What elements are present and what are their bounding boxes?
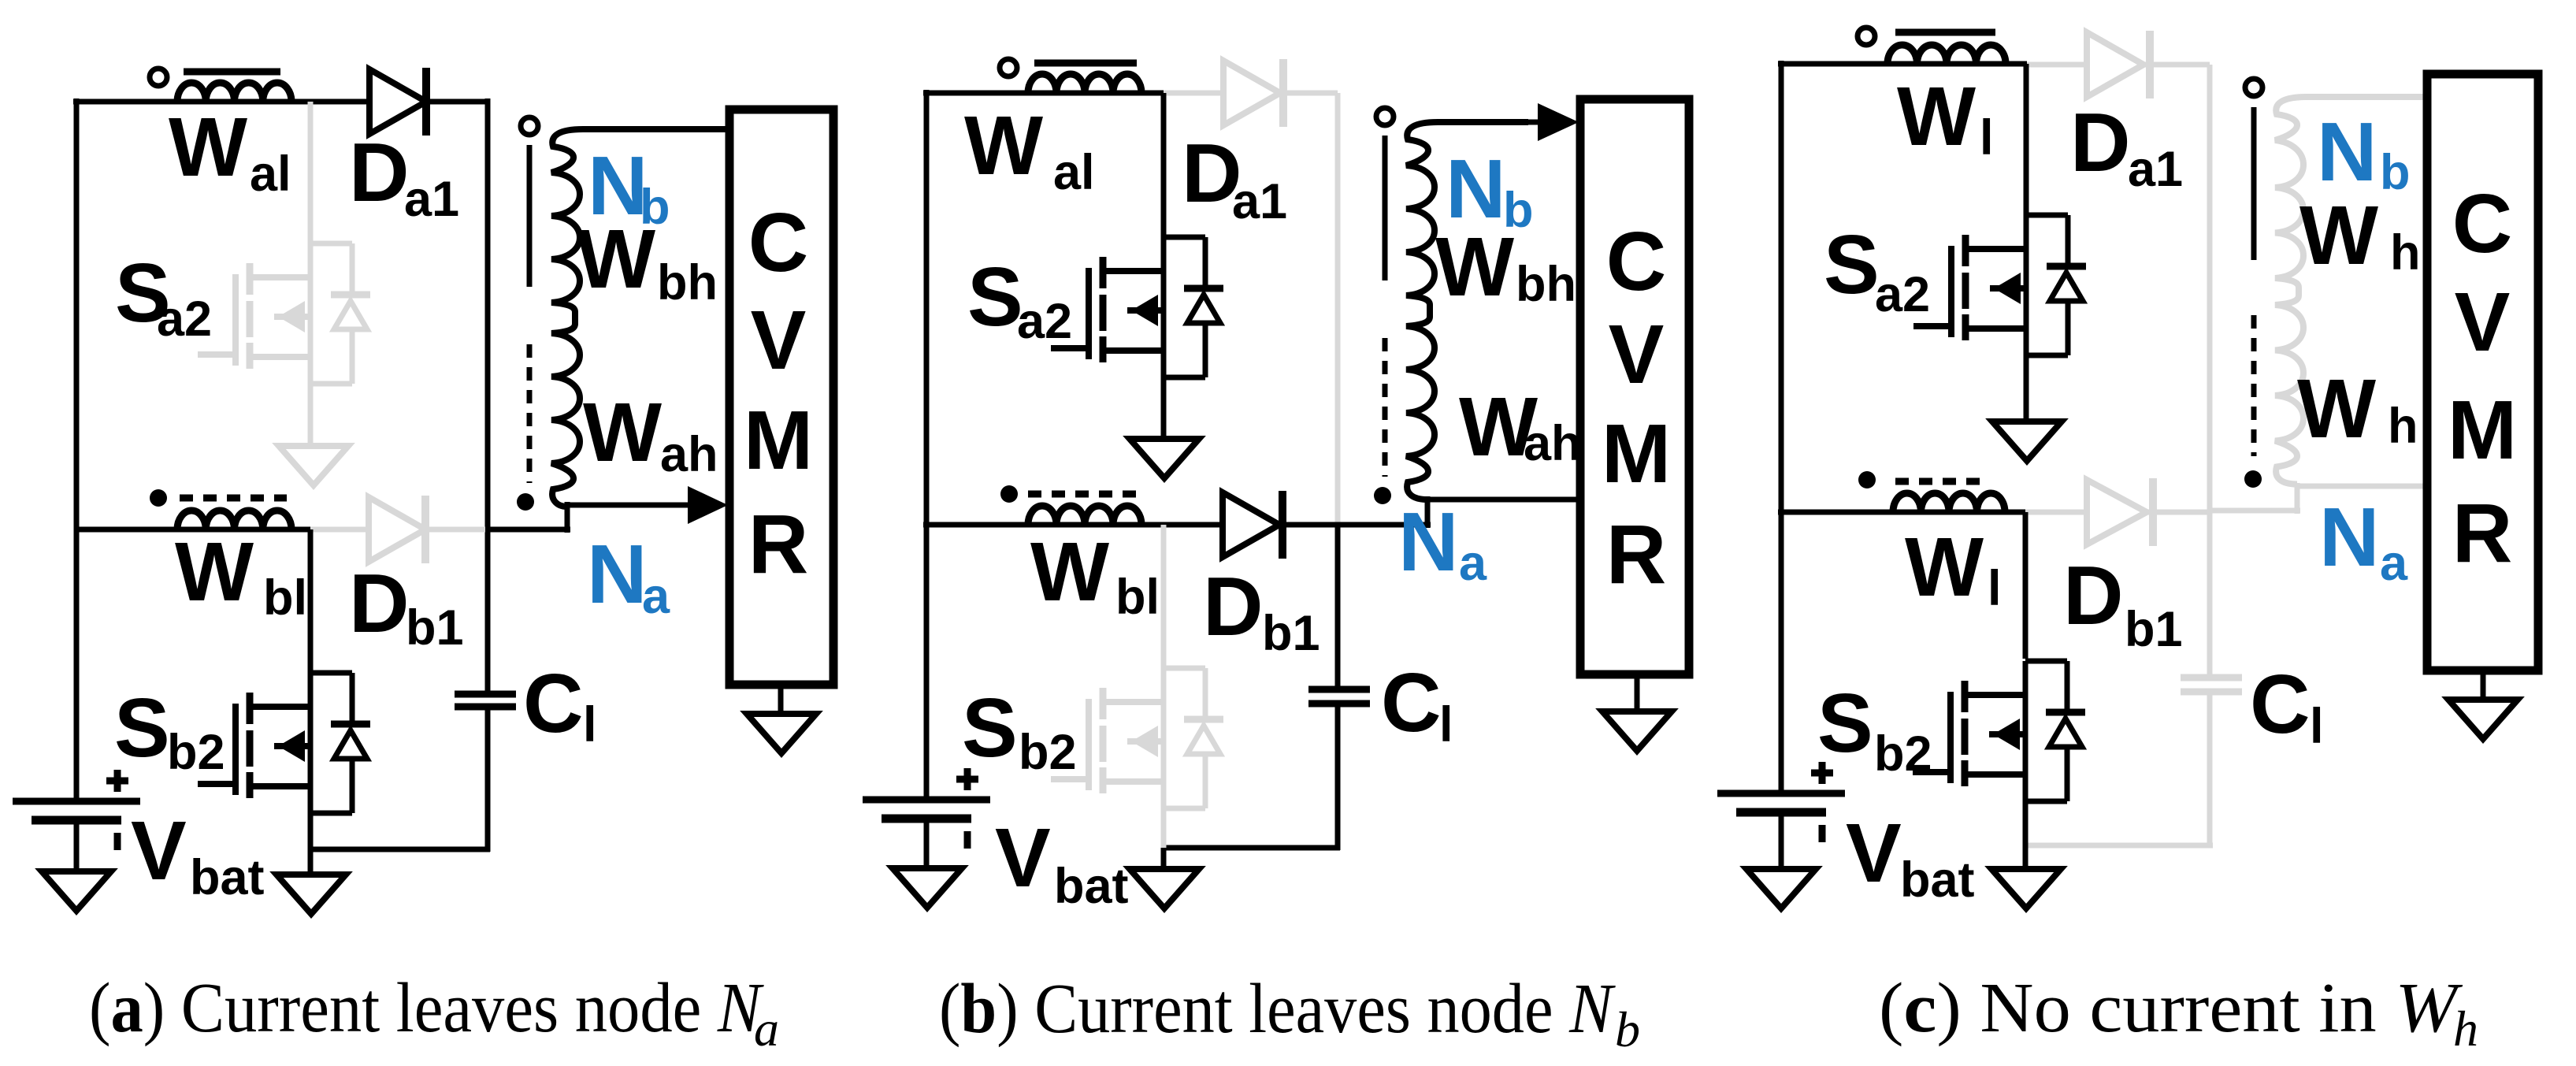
node Na jog wire (inactive) (c)	[2210, 483, 2427, 514]
svg-text:bl: bl	[1115, 570, 1160, 625]
svg-text:l: l	[2310, 699, 2324, 754]
svg-text:bh: bh	[1516, 257, 1576, 312]
inductor Wal winding	[177, 83, 291, 102]
transistor Sa2 source wire to ground	[308, 357, 314, 446]
svg-text:(c) No current in W: (c) No current in W	[1879, 969, 2463, 1047]
inductor Wl top winding (c)	[1887, 45, 2006, 64]
transformer core dashed line (b)	[1383, 338, 1388, 477]
caption (c)	[1879, 969, 2478, 1057]
wire: bottom rail, circuit (c)	[1778, 510, 2025, 515]
svg-text:V: V	[995, 812, 1051, 904]
inductor Wal winding (b)	[1028, 74, 1141, 93]
label Sa2 (c)	[1824, 218, 1930, 322]
ground below battery Vbat (b)	[893, 868, 962, 908]
battery Vbat	[13, 770, 140, 850]
transistor Sb2 (inactive) drain wire from bottom rail (b)	[1161, 525, 1167, 668]
ground below Sa2 (b)	[1130, 439, 1199, 478]
svg-text:W: W	[577, 213, 655, 306]
wire: battery negative stem (c)	[1779, 812, 1784, 869]
inductor Wl bottom dashed overline (c)	[1895, 478, 1985, 485]
svg-text:R: R	[1606, 508, 1667, 601]
svg-text:R: R	[2452, 487, 2513, 580]
inductor Wal overline bar	[184, 69, 280, 76]
wire: bottom rail gray segment through Db1, circuit (c)	[2025, 510, 2210, 515]
transistor Sb2 (inactive) (b)	[1051, 668, 1223, 808]
wire: bottom rail gray segment to Db1, circuit (a)	[310, 527, 488, 533]
ground below Sb2 (c)	[1991, 869, 2061, 908]
svg-text:al: al	[1053, 145, 1095, 200]
wire: battery negative stem, circuit (a)	[74, 820, 80, 871]
svg-text:W: W	[1905, 521, 1984, 614]
transistor Sa2 (b)	[1051, 237, 1223, 377]
label Vbat	[131, 804, 265, 905]
diode Db1 (b)	[1223, 491, 1282, 559]
battery Vbat (b)	[863, 768, 990, 849]
svg-text:D: D	[349, 126, 410, 219]
svg-text:S: S	[962, 682, 1018, 774]
node Na jog wire, circuit (a)	[485, 502, 570, 533]
label Wbh (b)	[1435, 221, 1576, 314]
ground below battery Vbat (c)	[1746, 869, 1816, 908]
svg-text:a: a	[754, 1001, 779, 1057]
ground below Sa2 (c)	[1992, 422, 2062, 461]
wire: bottom rail black segment through Wbl, circuit (a)	[76, 527, 314, 533]
svg-text:bl: bl	[263, 570, 307, 626]
transformer windings Wbh and Wah	[551, 129, 733, 507]
svg-text:C: C	[2250, 658, 2311, 751]
node Nb current arrow into CVMR (b)	[1520, 103, 1579, 141]
inductor Wl top terminal circle (c)	[1858, 28, 1875, 45]
wire: top rail, circuit (a)	[73, 99, 488, 105]
svg-text:bat: bat	[190, 850, 265, 905]
wire: gray vertical from Da1 through capacitor to bottom, circuit (c)	[2207, 65, 2213, 845]
svg-text:V: V	[1846, 807, 1902, 900]
wire: bottom rail, circuit (b)	[923, 522, 1338, 528]
label Sb2	[114, 682, 225, 780]
label Wl bottom (c)	[1905, 521, 2002, 616]
label Wbh	[577, 213, 718, 310]
svg-text:C: C	[523, 657, 584, 750]
svg-text:N: N	[587, 528, 648, 621]
label Db1	[349, 557, 464, 656]
inductor Wl bottom winding (c)	[1893, 493, 2005, 512]
svg-text:b: b	[2380, 145, 2410, 200]
transistor Sb2 drain wire from bottom rail	[308, 529, 314, 673]
wire: bottom output wire, circuit (b)	[1164, 845, 1340, 851]
transistor Sa2 source wire to ground (c)	[2024, 329, 2029, 422]
svg-text:bat: bat	[1054, 859, 1129, 914]
svg-text:W: W	[2297, 362, 2376, 455]
transformer windings Wh (inactive) (c)	[2275, 97, 2427, 485]
svg-text:h: h	[2390, 225, 2420, 280]
CVMR block (c)	[2427, 74, 2538, 670]
svg-text:a1: a1	[1232, 174, 1287, 229]
label Cl (b)	[1381, 656, 1453, 752]
svg-text:W: W	[2299, 189, 2378, 282]
diode Da1	[369, 68, 426, 136]
svg-text:h: h	[2388, 399, 2418, 454]
battery Vbat (c)	[1717, 762, 1845, 842]
transformer core solid line, circuit (a)	[527, 145, 533, 287]
transformer Wbh terminal circle	[521, 117, 538, 135]
transformer Wah polarity dot	[517, 493, 534, 511]
svg-text:C: C	[2452, 177, 2513, 270]
ground below CVMR, circuit (a)	[747, 714, 816, 753]
svg-text:S: S	[114, 682, 170, 774]
capacitor Cl	[455, 694, 516, 707]
wire: left vertical rail, circuit (a)	[74, 98, 80, 801]
svg-text:bh: bh	[657, 255, 718, 310]
transformer core solid line (b)	[1383, 136, 1388, 280]
transformer windings Wbh and Wah (b)	[1406, 122, 1528, 500]
label Wah	[583, 386, 718, 482]
label Wl top (c)	[1897, 70, 1994, 165]
svg-text:l: l	[583, 697, 597, 752]
transistor Sb2 source wire to bottom node (b)	[1161, 782, 1167, 848]
ground below Sa2	[279, 446, 348, 485]
svg-text:C: C	[1381, 656, 1442, 749]
svg-text:W: W	[964, 99, 1043, 192]
label Cl	[523, 657, 597, 752]
transistor Sb2 drain wire from bottom rail (c)	[2023, 512, 2029, 659]
wire: top rail, circuit (b)	[923, 91, 1164, 96]
svg-text:W: W	[1435, 221, 1514, 314]
svg-text:D: D	[2070, 96, 2131, 189]
svg-text:a: a	[2380, 536, 2408, 591]
label Sb2 (c)	[1817, 677, 1932, 782]
transformer core dashed line (c)	[2251, 315, 2257, 456]
svg-text:N: N	[1398, 496, 1459, 589]
svg-text:W: W	[175, 526, 254, 618]
svg-text:M: M	[1602, 407, 1671, 500]
label Sa2 (b)	[967, 251, 1072, 349]
label Wal	[169, 101, 291, 202]
inductor Wl top overline bar (c)	[1895, 29, 1995, 36]
transistor Sa2 drain wire from top rail (b)	[1161, 93, 1167, 237]
svg-text:ah: ah	[1524, 416, 1582, 471]
label Nb (c)	[2317, 106, 2410, 200]
diode Db1 (inactive)	[369, 496, 425, 563]
svg-text:a1: a1	[404, 172, 459, 227]
transistor Sa2 source wire to ground (b)	[1161, 351, 1167, 439]
inductor Wl bottom polarity dot (c)	[1858, 471, 1876, 488]
svg-text:R: R	[748, 498, 809, 591]
label Na (c)	[2319, 491, 2408, 591]
svg-text:D: D	[2063, 549, 2124, 642]
svg-text:b2: b2	[1874, 726, 1932, 782]
svg-text:N: N	[2317, 106, 2377, 199]
wire: CVMR ground stem, circuit (a)	[778, 685, 784, 714]
svg-text:V: V	[131, 804, 187, 897]
label Vbat (c)	[1846, 807, 1975, 908]
label Vbat (b)	[995, 812, 1129, 914]
svg-text:M: M	[744, 394, 813, 487]
svg-text:h: h	[2453, 1001, 2478, 1057]
ground below CVMR (c)	[2448, 700, 2518, 739]
CVMR letters (c)	[2448, 177, 2517, 580]
label Wal (b)	[964, 99, 1095, 200]
inductor Wbl winding	[177, 511, 291, 529]
wire: top rail gray segment through Da1, circuit (b)	[1164, 91, 1338, 96]
label Wh bottom (c)	[2297, 362, 2418, 455]
diode Da1 (inactive) (b)	[1223, 59, 1283, 127]
wire: CVMR ground stem (b)	[1635, 674, 1640, 711]
CVMR block, circuit (a)	[729, 110, 833, 685]
svg-text:ah: ah	[660, 427, 718, 482]
svg-text:S: S	[1817, 677, 1873, 770]
svg-text:N: N	[2319, 491, 2380, 584]
label Da1 (c)	[2070, 96, 2183, 197]
label Da1	[349, 126, 459, 227]
wire: bottom output wire from Sb2 source node to Cl, circuit (a)	[310, 847, 490, 852]
label Da1 (b)	[1182, 127, 1287, 229]
svg-text:W: W	[1030, 526, 1109, 618]
svg-text:V: V	[751, 294, 807, 387]
diode Db1 (inactive) (c)	[2087, 478, 2153, 546]
caption (b)	[939, 970, 1640, 1057]
svg-text:b2: b2	[167, 725, 225, 780]
svg-text:b: b	[1615, 1001, 1640, 1057]
svg-text:a1: a1	[2128, 142, 2183, 197]
caption (a)	[89, 969, 779, 1057]
transistor Sa2 (inactive) drain wire from top rail	[308, 102, 314, 243]
wire: ground stem below bottom node (b)	[1161, 848, 1167, 869]
CVMR letters (b)	[1602, 215, 1671, 601]
transistor Sa2 drain wire from top rail (c)	[2024, 64, 2029, 229]
transformer Wbh terminal circle (b)	[1376, 108, 1394, 125]
inductor Wbl polarity dot (b)	[1000, 485, 1018, 503]
svg-text:a: a	[1459, 536, 1487, 591]
label Db1 (c)	[2063, 549, 2183, 657]
ground below Sb2 (b)	[1130, 869, 1199, 908]
inductor Wal overline bar (b)	[1034, 60, 1137, 67]
transistor Sb2 (c)	[1913, 661, 2085, 801]
label Nb	[588, 139, 670, 235]
svg-text:l: l	[1988, 561, 2002, 616]
label Db1 (b)	[1203, 560, 1320, 661]
wire: top rail gray segment through Da1, circuit (c)	[2027, 62, 2210, 68]
svg-text:l: l	[1980, 110, 1994, 165]
wire: CVMR ground stem (c)	[2481, 670, 2486, 700]
inductor Wal phasing terminal circle (b)	[1000, 59, 1017, 76]
inductor Wbl dashed overline	[180, 495, 287, 502]
transformer Wh terminal circle (c)	[2245, 79, 2262, 96]
label Cl (c)	[2250, 658, 2324, 754]
wire: bottom output wire (inactive) (c)	[2025, 843, 2213, 849]
svg-text:(a) Current leaves node N: (a) Current leaves node N	[89, 969, 765, 1047]
svg-text:C: C	[1606, 215, 1667, 308]
label Sa2	[115, 247, 212, 347]
label Na	[587, 528, 670, 624]
svg-text:W: W	[1897, 70, 1976, 163]
capacitor Cl (inactive) (c)	[2181, 678, 2242, 692]
svg-text:S: S	[1824, 218, 1880, 311]
svg-text:M: M	[2448, 384, 2517, 477]
ground below CVMR (b)	[1602, 711, 1672, 751]
wire: right vertical from Da1 cathode down to capacitor, circuit (a)	[485, 98, 491, 852]
label Nb (b)	[1446, 143, 1533, 238]
capacitor Cl (b)	[1308, 689, 1370, 704]
node Na jog wire (b)	[1338, 496, 1580, 528]
svg-text:D: D	[1203, 560, 1264, 653]
svg-text:C: C	[748, 196, 809, 289]
transformer Wh polarity dot (c)	[2244, 470, 2262, 488]
svg-text:al: al	[250, 147, 291, 202]
svg-text:b1: b1	[2125, 602, 2183, 657]
transistor Sa2 (c)	[1913, 215, 2086, 355]
CVMR block (b)	[1580, 99, 1689, 674]
svg-text:S: S	[967, 251, 1023, 344]
svg-text:V: V	[2455, 276, 2511, 369]
CVMR letters, circuit (a)	[744, 196, 813, 591]
svg-text:b1: b1	[1262, 606, 1320, 661]
svg-text:b1: b1	[406, 600, 464, 656]
svg-text:l: l	[1439, 697, 1453, 752]
inductor Wbl dashed overline (b)	[1028, 491, 1138, 498]
wire: battery negative stem (b)	[924, 819, 930, 868]
wire: left vertical rail, circuit (c)	[1779, 61, 1784, 793]
svg-text:a2: a2	[1875, 267, 1930, 322]
svg-text:b2: b2	[1019, 725, 1077, 780]
inductor Wbl winding (b)	[1028, 506, 1141, 525]
transistor Sb2 source wire to ground (c)	[2023, 774, 2029, 869]
ground below Sb2	[277, 875, 346, 914]
transformer core solid line (c)	[2251, 107, 2257, 260]
diode Da1 (inactive) (c)	[2087, 31, 2150, 98]
label Na (b)	[1398, 496, 1487, 591]
svg-text:a2: a2	[157, 292, 212, 347]
ground below battery Vbat	[42, 871, 111, 911]
wire: gray vertical from Da1 to bottom rail, circuit (b)	[1335, 93, 1341, 525]
transistor Sb2 source wire to ground	[308, 786, 314, 875]
wire: top rail, circuit (c)	[1778, 61, 2027, 67]
svg-text:a: a	[642, 569, 670, 624]
inductor Wal phasing terminal circle	[150, 69, 167, 86]
svg-text:W: W	[583, 386, 662, 479]
node Na current arrow into CVMR	[567, 486, 728, 524]
label Wah (b)	[1459, 381, 1582, 474]
inductor Wbl polarity dot	[150, 489, 167, 507]
label Sb2 (b)	[962, 682, 1077, 780]
label Wh top (c)	[2299, 189, 2420, 282]
svg-text:W: W	[169, 101, 247, 194]
svg-text:a2: a2	[1017, 294, 1072, 349]
svg-text:D: D	[349, 557, 410, 650]
wire: left vertical rail, circuit (b)	[924, 90, 930, 800]
transformer core dashed line, circuit (a)	[527, 344, 533, 483]
svg-text:(b) Current leaves node N: (b) Current leaves node N	[939, 970, 1616, 1048]
transformer Wah polarity dot (b)	[1374, 487, 1391, 504]
svg-text:V: V	[1609, 308, 1665, 401]
wire: right vertical through capacitor, circuit (b)	[1335, 525, 1341, 850]
svg-text:bat: bat	[1900, 852, 1975, 908]
transistor Sa2 (inactive)	[198, 243, 370, 384]
label Wbl (b)	[1030, 526, 1160, 625]
label Wbl	[175, 526, 307, 626]
transistor Sb2	[198, 673, 370, 813]
